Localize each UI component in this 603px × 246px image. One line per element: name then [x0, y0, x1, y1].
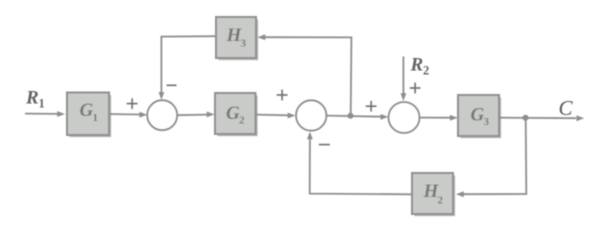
svg-text:G: G — [226, 103, 240, 124]
svg-text:3: 3 — [241, 38, 247, 50]
summing junction S2 — [296, 100, 326, 130]
wire H3 output down into sum1 — [159, 36, 217, 100]
node A junction dot — [348, 113, 354, 119]
node B junction dot — [523, 115, 529, 121]
svg-text:2: 2 — [438, 195, 444, 207]
wire sum2 to sum3 through node A — [326, 114, 388, 120]
svg-text:2: 2 — [423, 64, 429, 78]
wire sum3 to G3 — [420, 115, 458, 121]
plus sign at sum3 top input — [410, 83, 421, 94]
wire G3 to C output — [499, 115, 584, 121]
wire G2 to sum2 — [256, 113, 296, 119]
minus sign at sum1 top input — [167, 84, 177, 86]
wire G1 to sum1 — [109, 112, 147, 118]
summing junction S3 — [389, 102, 420, 133]
svg-text:G: G — [471, 105, 485, 126]
block H3 — [216, 17, 257, 59]
block H2 — [412, 173, 454, 215]
svg-text:1: 1 — [39, 97, 45, 111]
svg-text:2: 2 — [239, 115, 245, 127]
summing junction S1 — [147, 100, 177, 130]
plus sign at sum3 left input — [366, 101, 377, 112]
block G1 — [67, 93, 110, 137]
wire R2 input down into sum3 — [401, 57, 407, 102]
wire sum1 to G2 — [177, 112, 214, 118]
wire node A up into H3 — [258, 34, 352, 115]
svg-text:R: R — [410, 55, 424, 76]
svg-text:3: 3 — [484, 116, 490, 128]
node R1 input label — [25, 88, 45, 111]
plus sign at sum2 input — [277, 90, 288, 101]
node R2 input label — [410, 55, 430, 78]
plus sign at sum1 input — [127, 98, 138, 109]
svg-text:R: R — [25, 88, 39, 109]
svg-text:C: C — [559, 96, 574, 120]
wire R1 input — [25, 111, 65, 117]
svg-text:G: G — [80, 100, 94, 121]
svg-text:1: 1 — [93, 112, 99, 124]
block G2 — [215, 93, 257, 135]
wire node B down into H2 — [456, 118, 526, 197]
wire H2 output up into sum2 — [307, 132, 412, 195]
minus sign at sum2 bottom input — [319, 144, 330, 146]
block G3 — [458, 95, 500, 137]
